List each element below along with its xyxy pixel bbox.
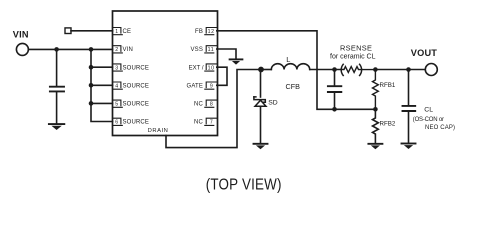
svg-text:NC: NC [194,120,203,126]
VIN terminal circle [16,43,28,55]
IC U1 package outline [113,11,218,136]
svg-text:4: 4 [115,83,118,89]
svg-text:7: 7 [210,120,213,126]
pin 1 bracket [113,28,123,35]
pin 2 bracket [113,46,123,53]
wire VSS pin11 to ground [217,49,236,59]
pin 11 bracket [205,46,217,53]
svg-text:CL: CL [424,106,433,113]
inductor L [271,64,309,70]
node RFB junction [373,107,378,112]
svg-text:2: 2 [115,47,118,53]
svg-text:6: 6 [115,120,118,126]
resistor RSENSE zigzag [310,67,376,73]
VOUT terminal circle [425,64,437,76]
svg-text:DRAIN: DRAIN [148,128,169,134]
capacitor CFB plates [328,86,341,92]
wire RSENSE to VOUT [375,69,425,71]
pin 4 bracket [113,82,123,89]
svg-text:CE: CE [123,29,132,35]
node SW junction [258,67,264,73]
svg-text:SOURCE: SOURCE [123,102,150,108]
pin 9 bracket [205,82,217,89]
svg-text:L: L [286,55,290,64]
resistor RFB1 [373,70,379,110]
node RFB1 top [373,67,378,72]
node junction SOURCE bus [89,47,94,52]
svg-text:VSS: VSS [191,47,203,53]
pin 3 bracket [113,64,123,71]
svg-text:(TOP VIEW): (TOP VIEW) [206,177,282,194]
node pin4 [89,83,94,88]
svg-text:FB: FB [195,29,203,35]
svg-text:9: 9 [210,83,213,89]
svg-text:3: 3 [115,65,118,71]
svg-text:(OS-CON or: (OS-CON or [413,117,444,123]
svg-text:SD: SD [268,100,278,107]
diode SD lead bottom [260,106,262,143]
svg-text:VIN: VIN [13,30,29,40]
resistor RSENSE parentheses [341,64,361,75]
svg-text:for ceramic CL: for ceramic CL [330,54,376,61]
CE input square pad [65,28,71,34]
diode SD lead top [260,70,262,98]
capacitor CL plates [403,106,416,111]
ground CL [402,144,416,150]
capacitor CIN lead top [56,49,58,85]
ground VSS [230,59,243,64]
svg-text:SOURCE: SOURCE [123,120,150,126]
capacitor CL lead top [408,70,410,106]
svg-text:12: 12 [208,29,215,35]
pin 7 bracket [205,118,217,125]
wire CE square to pin 1 [71,30,113,32]
wire stub pin 4 [91,84,113,86]
wire VIN to pin 2 [29,48,113,50]
wire SW to inductor [261,69,271,71]
svg-text:RSENSE: RSENSE [340,43,372,52]
resistor RFB2 [373,109,379,143]
wire stub pin 3 [91,66,113,68]
svg-text:CFB: CFB [286,82,301,91]
svg-text:8: 8 [210,102,213,108]
svg-text:1: 1 [115,29,118,35]
capacitor CFB lead bottom [334,93,336,109]
node CFB bottom [332,107,337,112]
svg-text:VIN: VIN [123,47,133,53]
wire stub pin 5 [91,102,113,104]
svg-text:5: 5 [115,102,118,108]
node pin3 [89,65,94,70]
diode SD triangle [255,100,266,106]
capacitor CL lead bottom [408,112,410,143]
ground RFB2 [368,144,382,150]
svg-text:GATE: GATE [187,83,204,89]
capacitor CIN plates [50,87,64,92]
svg-text:11: 11 [208,47,215,53]
svg-text:RFB2: RFB2 [380,120,396,127]
capacitor CFB lead top [334,70,336,86]
wire DRAIN net [166,70,261,148]
svg-text:VOUT: VOUT [411,48,438,58]
ground SD [254,144,268,150]
diode SD schottky cathode bar [254,97,265,102]
wire EXT-GATE strap pins 10-9 [217,67,227,85]
pin 10 bracket [205,64,217,71]
svg-text:NC: NC [194,102,203,108]
svg-text:SOURCE: SOURCE [123,83,150,89]
node CFB top [332,67,337,72]
svg-text:SOURCE: SOURCE [123,65,150,71]
svg-text:10: 10 [208,65,215,71]
node pin5 [89,101,94,106]
svg-text:NEO CAP): NEO CAP) [425,125,455,131]
wire FB pin12 net [217,31,376,110]
svg-text:EXT /: EXT / [189,65,204,71]
wire SOURCE bus vertical [91,49,113,121]
capacitor CIN lead bottom [56,92,58,123]
pin 12 bracket [205,28,217,35]
pin 5 bracket [113,100,123,107]
ground CIN [49,124,64,130]
svg-text:RFB1: RFB1 [380,82,396,89]
node CL tap [406,67,411,72]
node junction CIN tap [54,47,59,52]
pin 8 bracket [205,100,217,107]
pin 6 bracket [113,118,123,125]
